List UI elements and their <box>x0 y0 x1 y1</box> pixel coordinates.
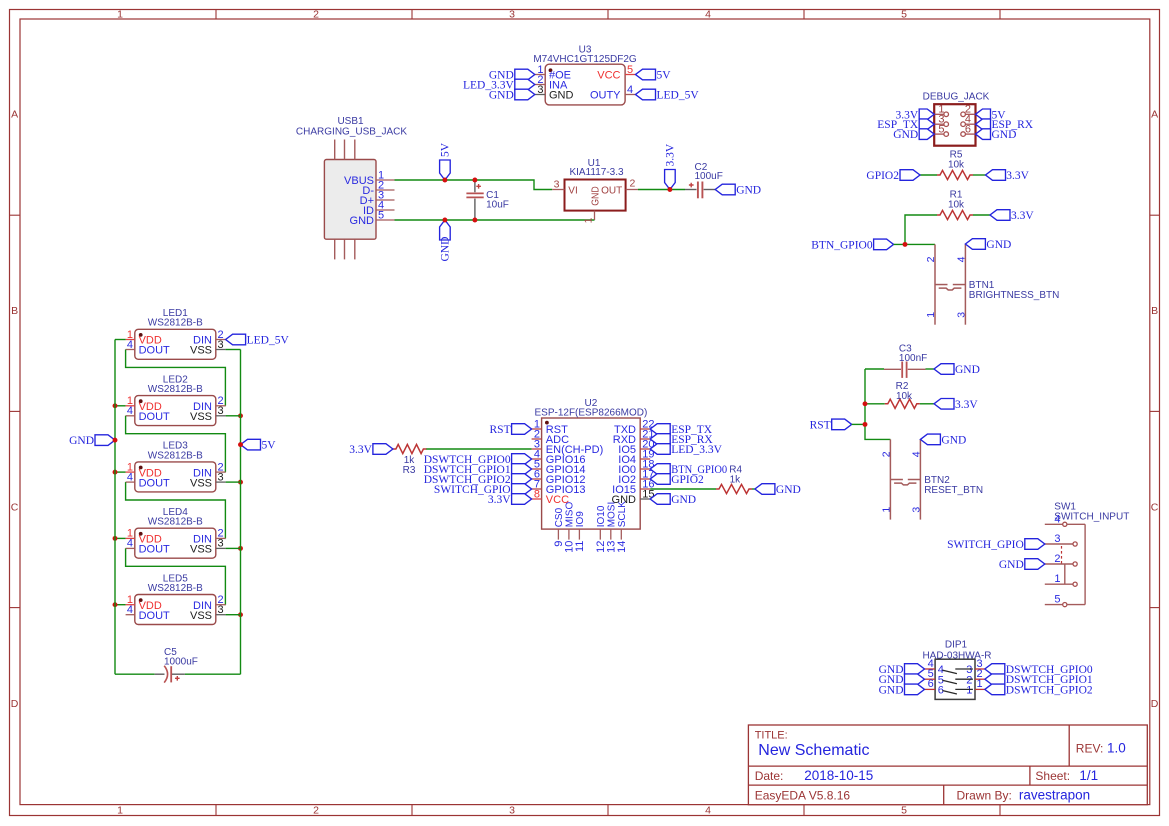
wire right VSS bus <box>240 350 242 675</box>
svg-text:DOUT: DOUT <box>139 477 170 489</box>
junction at GND flag <box>442 218 447 223</box>
net flag GND (DIP1 pin 5) <box>879 674 925 686</box>
svg-text:3: 3 <box>554 178 560 190</box>
svg-text:C: C <box>11 501 19 513</box>
LED3 pin 3 VSS <box>190 471 226 489</box>
LED1 pin 4 DOUT <box>126 339 170 357</box>
svg-text:4: 4 <box>627 84 633 96</box>
svg-text:LED_5V: LED_5V <box>657 90 700 102</box>
net flag GPIO2 <box>866 170 920 182</box>
svg-text:8: 8 <box>534 488 540 500</box>
svg-text:WS2812B-B: WS2812B-B <box>148 583 203 594</box>
svg-text:GND: GND <box>549 90 574 102</box>
resistor R1 <box>937 190 973 220</box>
wire 3.3V-R3 to U2 EN <box>426 448 532 450</box>
svg-text:3: 3 <box>537 84 543 96</box>
svg-text:DEBUG_JACK: DEBUG_JACK <box>923 92 990 103</box>
svg-text:3.3V: 3.3V <box>488 494 511 506</box>
DIP1 pin 5 (left) <box>925 668 944 686</box>
net flag LED_5V (LED1 DIN) <box>226 334 290 346</box>
svg-text:1000uF: 1000uF <box>164 657 198 668</box>
net flag GND (U3 pin3) <box>489 89 535 101</box>
wire LED1 VDD to left bus <box>115 339 126 341</box>
net flag GND (BTN1 pin4) <box>965 239 1011 251</box>
svg-text:GND: GND <box>986 239 1011 251</box>
U2 pin 19 IO4 <box>618 448 654 466</box>
svg-text:VSS: VSS <box>190 477 212 489</box>
svg-text:3: 3 <box>218 339 224 351</box>
svg-text:3.3V: 3.3V <box>1011 210 1034 222</box>
C2 labels <box>695 162 723 182</box>
svg-text:2: 2 <box>880 451 892 457</box>
junction VSS bus LED5 <box>238 612 243 617</box>
wire RST vertical node <box>865 369 890 439</box>
svg-text:New Schematic: New Schematic <box>758 742 869 759</box>
DEBUG_JACK pin 1 <box>934 104 948 117</box>
net flag BTN_GPIO0 (U2 pin18) <box>650 464 727 476</box>
title block TITLE <box>755 730 788 742</box>
LED2 pin 1 VDD <box>126 395 162 413</box>
svg-text:GND: GND <box>992 129 1017 141</box>
svg-text:4: 4 <box>910 451 922 457</box>
svg-text:BRIGHTNESS_BTN: BRIGHTNESS_BTN <box>969 290 1060 301</box>
svg-text:Date:: Date: <box>755 769 784 783</box>
svg-text:3: 3 <box>509 8 515 20</box>
LED3 pin 1 VDD <box>126 461 162 479</box>
svg-text:OUTY: OUTY <box>590 90 621 102</box>
U2 pin 13 MOSI (bottom) <box>606 502 618 553</box>
resistor R5 <box>937 149 973 179</box>
svg-text:1: 1 <box>1054 573 1060 585</box>
U2 pin 15 GND <box>612 488 655 506</box>
wire LED4 VSS to bus <box>226 547 241 549</box>
svg-text:1: 1 <box>966 685 972 697</box>
junction R2 node <box>863 401 868 406</box>
connector USB1 body <box>324 160 376 240</box>
svg-text:5V: 5V <box>262 440 277 452</box>
wire LED1 DOUT to LED2 DIN <box>126 350 226 406</box>
svg-text:A: A <box>11 108 18 120</box>
U2 pin 3 EN(CH-PD) <box>532 438 604 456</box>
svg-text:WS2812B-B: WS2812B-B <box>148 384 203 395</box>
wire U2 IO15 to R4 <box>650 488 716 490</box>
svg-text:KIA1117-3.3: KIA1117-3.3 <box>569 167 624 178</box>
connector DEBUG_JACK body <box>934 104 975 146</box>
junction VSS bus LED4 <box>238 546 243 551</box>
C3 labels <box>899 344 927 365</box>
svg-text:OUT: OUT <box>601 185 622 196</box>
svg-text:VSS: VSS <box>190 610 212 622</box>
U1 pin 1 GND (bottom) <box>582 186 601 223</box>
wire VBUS to U1 VI <box>395 180 553 190</box>
svg-text:3.3V: 3.3V <box>1006 170 1029 182</box>
wire left VDD bus <box>114 340 116 675</box>
svg-text:WS2812B-B: WS2812B-B <box>148 517 203 528</box>
USB1 pin 5 GND <box>350 209 395 227</box>
svg-text:IO9: IO9 <box>575 511 586 528</box>
svg-text:5: 5 <box>938 123 944 135</box>
LED chip LED5 label <box>148 573 203 594</box>
junction VSS bus LED2 <box>238 413 243 418</box>
junction VSS bus LED3 <box>238 480 243 485</box>
net flag ESP_RX (DEBUG_JACK pin 4) <box>976 119 1034 131</box>
DIP1 pin 6 (left) <box>925 678 944 696</box>
wire LED2 DOUT to LED3 DIN <box>126 416 226 472</box>
wire LED3 DOUT to LED4 DIN <box>126 482 226 538</box>
IC U3 label <box>533 45 637 66</box>
DIP1 pin 3 (right) <box>966 658 985 676</box>
svg-text:ravestrapon: ravestrapon <box>1019 787 1090 802</box>
net flag 3.3V (DEBUG_JACK pin 1) <box>896 109 935 121</box>
svg-text:5: 5 <box>627 64 633 76</box>
U3 pin 4 OUTY <box>590 84 636 102</box>
net flag GND (vertical below wire) <box>440 220 452 262</box>
svg-text:4: 4 <box>1054 513 1060 525</box>
svg-text:WS2812B-B: WS2812B-B <box>148 450 203 461</box>
svg-text:GND: GND <box>999 559 1024 571</box>
svg-text:GND: GND <box>489 90 514 102</box>
U1 pin 2 OUT <box>601 178 638 197</box>
net flag DSWTCH_GPIO0 (DIP1 pin 3) <box>985 664 1093 676</box>
net flag 3.3V (R2) <box>934 399 978 411</box>
svg-text:2018-10-15: 2018-10-15 <box>804 768 873 783</box>
U3 pin 2 INA <box>535 74 568 92</box>
resistor R2 <box>885 381 920 408</box>
pushbutton BTN2 RESET_BTN <box>880 439 983 519</box>
DIP1 pin 1 (right) <box>966 678 985 696</box>
junction VDD bus LED3 <box>113 470 118 475</box>
svg-text:GPIO2: GPIO2 <box>671 474 704 486</box>
svg-text:100nF: 100nF <box>899 353 927 364</box>
LED4 pin 1 VDD <box>126 528 162 546</box>
DIP1 pin 4 (left) <box>925 658 944 676</box>
net flag SWITCH_GPIO (U2) <box>434 484 532 496</box>
svg-text:IO10: IO10 <box>596 505 607 527</box>
wire R2 to 3.3V <box>920 403 934 405</box>
svg-text:Sheet:: Sheet: <box>1035 769 1070 783</box>
svg-text:2: 2 <box>313 804 319 816</box>
net flag GND (DIP1 pin 6) <box>879 684 925 696</box>
net flag 3.3V (U2 VCC) <box>488 494 532 506</box>
svg-text:B: B <box>1151 305 1158 317</box>
IC U1 label <box>569 158 624 178</box>
svg-text:Drawn By:: Drawn By: <box>957 788 1012 802</box>
svg-text:CHARGING_USB_JACK: CHARGING_USB_JACK <box>296 127 407 138</box>
wire VDD bus stub LED4 <box>115 537 126 539</box>
LED1 pin 1 VDD <box>126 329 162 347</box>
LED chip LED4 label <box>148 507 203 528</box>
svg-text:5: 5 <box>378 209 384 221</box>
svg-text:1/1: 1/1 <box>1079 768 1098 783</box>
svg-text:LED_5V: LED_5V <box>247 335 290 347</box>
wire GPIO2 to R5 <box>920 174 937 176</box>
net flag ESP_TX (DEBUG_JACK pin 3) <box>877 119 934 131</box>
svg-text:GND: GND <box>941 434 966 446</box>
wire bottom C5 right <box>185 673 241 675</box>
svg-text:1: 1 <box>117 804 123 816</box>
svg-text:14: 14 <box>616 541 628 553</box>
wire R5 to 3.3V <box>973 174 986 176</box>
net flag GND (BTN2 pin4) <box>920 434 966 446</box>
USB1 pin 2 D- <box>362 179 394 197</box>
junction VDD bus LED5 <box>113 602 118 607</box>
svg-text:ESP-12F(ESP8266MOD): ESP-12F(ESP8266MOD) <box>534 408 647 419</box>
pushbutton BTN1 BRIGHTNESS_BTN <box>925 244 1059 324</box>
svg-text:4: 4 <box>955 256 967 262</box>
svg-text:3.3V: 3.3V <box>955 399 978 411</box>
switch SW1 SWITCH_INPUT <box>1045 513 1085 606</box>
net flag DSWTCH_GPIO0 (U2) <box>424 454 532 466</box>
svg-text:3: 3 <box>218 538 224 550</box>
DEBUG_JACK pin 5 <box>934 123 948 136</box>
svg-text:VSS: VSS <box>190 544 212 556</box>
net flag DSWTCH_GPIO1 (U2) <box>424 464 532 476</box>
svg-text:3.3V: 3.3V <box>349 444 372 456</box>
LED1 pin 3 VSS <box>190 339 226 357</box>
LED chip LED1 label <box>148 308 203 329</box>
DIP1 pin 2 (right) <box>966 668 985 686</box>
wire VDD bus stub LED5 <box>115 604 126 606</box>
U2 pin 2 ADC <box>532 428 569 446</box>
LED3 pin 4 DOUT <box>126 471 170 489</box>
svg-text:100uF: 100uF <box>695 171 723 182</box>
resistor R4 <box>716 465 752 494</box>
junction VDD bus LED2 <box>113 403 118 408</box>
resistor R3 <box>393 444 426 476</box>
U2 pin 20 IO5 <box>618 438 654 456</box>
wire LED4 DOUT to LED5 DIN <box>126 548 226 604</box>
svg-text:DOUT: DOUT <box>139 544 170 556</box>
DIP1 switch element row 6-1 <box>942 689 973 694</box>
svg-text:A: A <box>1151 108 1158 120</box>
LED chip LED4 body <box>135 528 216 558</box>
net flag GND (U2 pin15) <box>650 494 696 506</box>
svg-text:4: 4 <box>705 804 711 816</box>
net flag GPIO2 (U2 pin17) <box>650 474 704 486</box>
wire R2 left <box>865 403 885 405</box>
wire GND rail USB to U1 <box>395 219 595 221</box>
C1 labels <box>486 190 509 211</box>
switch SW1 label <box>1054 502 1129 523</box>
net flag GND (C3) <box>934 364 980 376</box>
net flag 5V (DEBUG_JACK pin 2) <box>976 109 1007 121</box>
svg-text:11: 11 <box>574 541 586 552</box>
junction 5V flag LED bus <box>238 442 243 447</box>
U2 pin 17 IO2 <box>618 468 654 486</box>
svg-text:5V: 5V <box>657 70 672 82</box>
net flag ESP_RX (U2 pin21) <box>650 434 713 446</box>
U2 pin 5 GPIO14 <box>532 458 586 476</box>
svg-text:5: 5 <box>1054 594 1060 606</box>
connector DEBUG_JACK label <box>923 92 990 103</box>
net flag RST (U2 pin1) <box>490 424 532 436</box>
LED2 pin 4 DOUT <box>126 405 170 423</box>
wire RST flag to node <box>852 423 865 425</box>
U2 pin 18 IO0 <box>618 458 654 476</box>
net flag 3.3V (vertical after U1) <box>665 143 677 189</box>
svg-text:1.0: 1.0 <box>1107 740 1126 755</box>
svg-text:1: 1 <box>977 678 983 690</box>
svg-text:USB1: USB1 <box>337 116 364 127</box>
dip switch DIP1 label <box>922 639 991 661</box>
capacitor C1 <box>466 181 483 219</box>
svg-text:CS0: CS0 <box>554 507 565 527</box>
DEBUG_JACK pin 6 <box>961 123 976 136</box>
net flag 3.3V (R5) <box>986 170 1030 182</box>
module U2 body <box>542 418 641 529</box>
U3 pin 3 GND <box>535 84 574 102</box>
U2 pin 10 MISO (bottom) <box>564 502 576 553</box>
title block frame <box>748 725 1147 805</box>
svg-text:6: 6 <box>928 678 934 690</box>
svg-text:MISO: MISO <box>565 502 576 528</box>
net flag 5V (U3 pin5) <box>636 69 672 81</box>
C5 labels <box>164 647 198 668</box>
svg-text:RST: RST <box>810 419 831 431</box>
title block Drawn By <box>957 787 1091 802</box>
net flag LED_3.3V (U2 pin20) <box>650 444 722 456</box>
svg-text:1: 1 <box>880 507 892 513</box>
title block Sheet <box>1035 768 1098 783</box>
svg-text:4: 4 <box>127 538 133 550</box>
net flag GND (after C2) <box>715 184 761 196</box>
wire VDD bus stub LED2 <box>115 405 126 407</box>
svg-text:4: 4 <box>127 405 133 417</box>
U1 pin 3 VI <box>552 178 578 196</box>
svg-text:3.3V: 3.3V <box>665 143 677 166</box>
LED2 pin 2 DIN <box>193 395 226 413</box>
svg-text:SWITCH_GPIO: SWITCH_GPIO <box>947 539 1024 551</box>
junction BTN_GPIO0/R1 <box>903 242 908 247</box>
U2 pin 11 IO9 (bottom) <box>574 511 586 552</box>
junction C1 top <box>472 178 477 183</box>
USB1 pin 4 ID <box>363 199 395 217</box>
LED chip LED5 body <box>135 595 216 625</box>
LED4 pin 3 VSS <box>190 538 226 556</box>
net flag GND (DEBUG_JACK pin 6) <box>976 129 1017 141</box>
svg-text:3: 3 <box>218 471 224 483</box>
net flag GND (SW1 pin2) <box>999 559 1045 571</box>
svg-text:2: 2 <box>925 256 937 262</box>
svg-text:1: 1 <box>582 217 594 223</box>
wire LED2 VSS to bus <box>226 415 241 417</box>
U2 pin 6 GPIO12 <box>532 468 586 486</box>
svg-text:VSS: VSS <box>190 411 212 423</box>
LED5 pin 2 DIN <box>193 594 226 612</box>
svg-text:LED_3.3V: LED_3.3V <box>671 444 722 456</box>
net flag GND (LED bus) <box>69 435 115 447</box>
capacitor C5 <box>155 666 185 683</box>
net flag BTN_GPIO0 <box>811 239 893 251</box>
U2 pin 21 RXD <box>613 428 655 446</box>
U2 pin 22 TXD <box>614 418 655 436</box>
svg-text:EasyEDA V5.8.16: EasyEDA V5.8.16 <box>755 788 851 802</box>
U3 pin 5 VCC <box>597 64 635 82</box>
svg-text:RST: RST <box>490 424 511 436</box>
wire C3 to GND <box>926 368 935 370</box>
LED1 pin 2 DIN <box>193 329 226 347</box>
svg-text:1: 1 <box>925 312 937 318</box>
U3 pin 1 #OE <box>535 64 571 82</box>
svg-text:6: 6 <box>965 123 971 135</box>
svg-text:DSWTCH_GPIO2: DSWTCH_GPIO2 <box>1006 684 1093 696</box>
junction at 5V flag <box>442 178 447 183</box>
svg-text:GND: GND <box>776 484 801 496</box>
svg-text:GND: GND <box>350 215 375 227</box>
junction GND flag LED bus <box>113 438 118 443</box>
svg-text:2: 2 <box>313 8 319 20</box>
USB1 mounting stubs <box>335 140 355 260</box>
svg-text:MOSI: MOSI <box>606 502 617 528</box>
wire U1 OUT to C2 <box>638 189 685 191</box>
LED chip LED3 body <box>135 462 216 492</box>
DIP1 switch element row 4-3 <box>942 669 973 674</box>
LED2 pin 3 VSS <box>190 405 226 423</box>
svg-text:4: 4 <box>127 471 133 483</box>
wire BTN_GPIO0 to BTN1 <box>894 243 935 245</box>
net flag DSWTCH_GPIO2 (U2) <box>424 474 532 486</box>
svg-text:GPIO2: GPIO2 <box>866 170 899 182</box>
net flag 3.3V (R3) <box>349 444 393 456</box>
wire R4 to GND <box>752 488 755 490</box>
DEBUG_JACK pin 2 <box>961 104 976 117</box>
junction VDD bus LED4 <box>113 536 118 541</box>
svg-text:TITLE:: TITLE: <box>755 730 788 742</box>
net flag LED_5V (U3 pin4) <box>636 89 700 101</box>
svg-text:5: 5 <box>901 8 907 20</box>
DEBUG_JACK pin 3 <box>934 113 948 126</box>
svg-text:4: 4 <box>127 339 133 351</box>
LED4 pin 4 DOUT <box>126 538 170 556</box>
wire LED1 VSS to bus <box>226 349 241 351</box>
net flag GND (U3 pin1) <box>489 69 535 81</box>
svg-text:VI: VI <box>568 185 577 196</box>
net flag 5V (LED bus) <box>241 439 277 451</box>
svg-text:3: 3 <box>1054 533 1060 545</box>
svg-text:2: 2 <box>1054 553 1060 565</box>
svg-text:REV:: REV: <box>1076 741 1104 755</box>
junction at 3.3V flag <box>667 187 672 192</box>
net flag 5V (vertical) <box>440 142 452 180</box>
dip switch DIP1 body <box>935 659 975 699</box>
svg-text:GND: GND <box>69 435 94 447</box>
net flag LED_3.3V (U3 pin2) <box>463 79 535 91</box>
svg-text:4: 4 <box>705 8 711 20</box>
svg-text:D: D <box>1151 698 1159 710</box>
connector USB1 label <box>296 116 407 138</box>
LED chip LED1 body <box>135 329 216 359</box>
U2 pin 1 RST <box>532 418 568 436</box>
svg-text:3: 3 <box>218 604 224 616</box>
svg-text:GND: GND <box>879 684 904 696</box>
title block Date <box>755 768 874 783</box>
svg-text:C: C <box>1151 501 1159 513</box>
svg-text:R3: R3 <box>403 465 416 476</box>
net flag GND (R4) <box>755 484 801 496</box>
U2 pin 7 GPIO13 <box>532 478 586 496</box>
DEBUG_JACK pin 4 <box>961 113 976 126</box>
capacitor C2 <box>685 182 715 199</box>
LED chip LED3 label <box>148 441 203 462</box>
wire bottom C5 left <box>115 673 155 675</box>
svg-text:D: D <box>11 698 19 710</box>
svg-text:VSS: VSS <box>190 345 212 357</box>
svg-text:M74VHC1GT125DF2G: M74VHC1GT125DF2G <box>533 54 637 65</box>
U2 pin 14 SCLK (bottom) <box>616 501 628 553</box>
net flag RST (node) <box>810 419 852 431</box>
junction RST node <box>863 422 868 427</box>
svg-text:3: 3 <box>910 507 922 513</box>
